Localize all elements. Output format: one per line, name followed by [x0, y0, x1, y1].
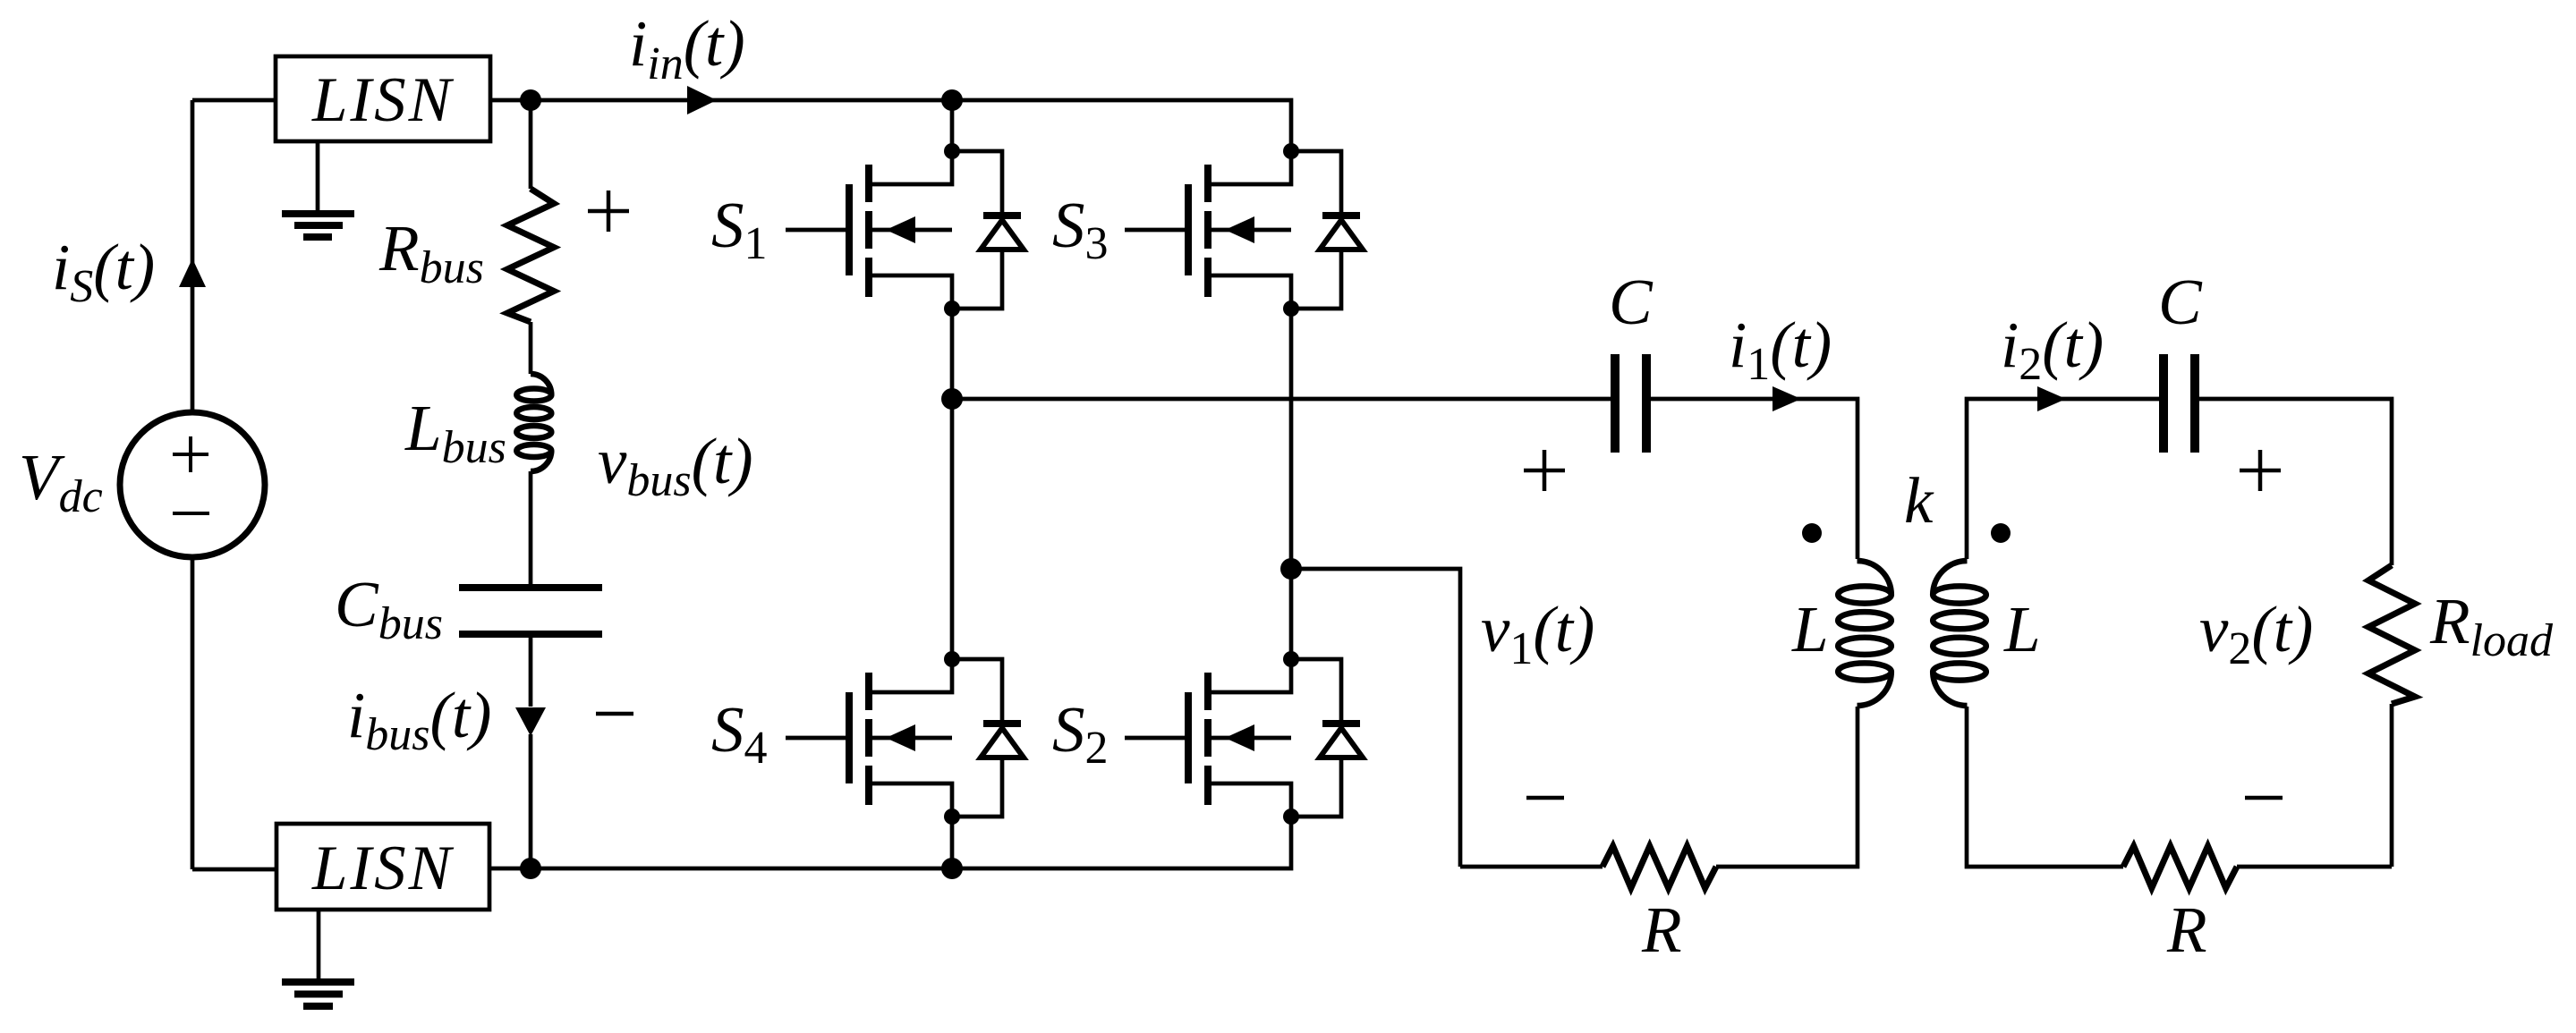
svg-text:i1(t): i1(t) [1729, 309, 1832, 390]
svg-text:vbus(t): vbus(t) [598, 425, 753, 506]
svg-text:L: L [1791, 593, 1829, 665]
svg-text:ibus(t): ibus(t) [347, 679, 491, 760]
svg-text:iS(t): iS(t) [52, 231, 155, 312]
svg-text:Rbus: Rbus [378, 212, 484, 293]
svg-text:Rload: Rload [2429, 585, 2554, 666]
svg-text:S1: S1 [711, 189, 768, 269]
svg-text:Vdc: Vdc [19, 441, 103, 522]
svg-text:C: C [2158, 266, 2203, 338]
svg-text:C: C [1609, 266, 1654, 338]
svg-text:R: R [2166, 893, 2207, 966]
svg-text:v2(t): v2(t) [2199, 593, 2313, 674]
svg-text:k: k [1904, 464, 1934, 537]
svg-text:S2: S2 [1052, 693, 1109, 774]
svg-text:v1(t): v1(t) [1481, 593, 1594, 674]
svg-text:Lbus: Lbus [404, 392, 506, 473]
svg-text:LISN: LISN [311, 834, 455, 903]
svg-text:iin(t): iin(t) [629, 7, 745, 89]
svg-text:S3: S3 [1052, 189, 1109, 269]
svg-text:S4: S4 [711, 693, 768, 774]
svg-text:LISN: LISN [311, 65, 455, 135]
svg-text:L: L [2003, 593, 2041, 665]
svg-text:Cbus: Cbus [335, 568, 443, 649]
svg-text:R: R [1641, 893, 1682, 966]
svg-text:i2(t): i2(t) [2001, 309, 2104, 390]
